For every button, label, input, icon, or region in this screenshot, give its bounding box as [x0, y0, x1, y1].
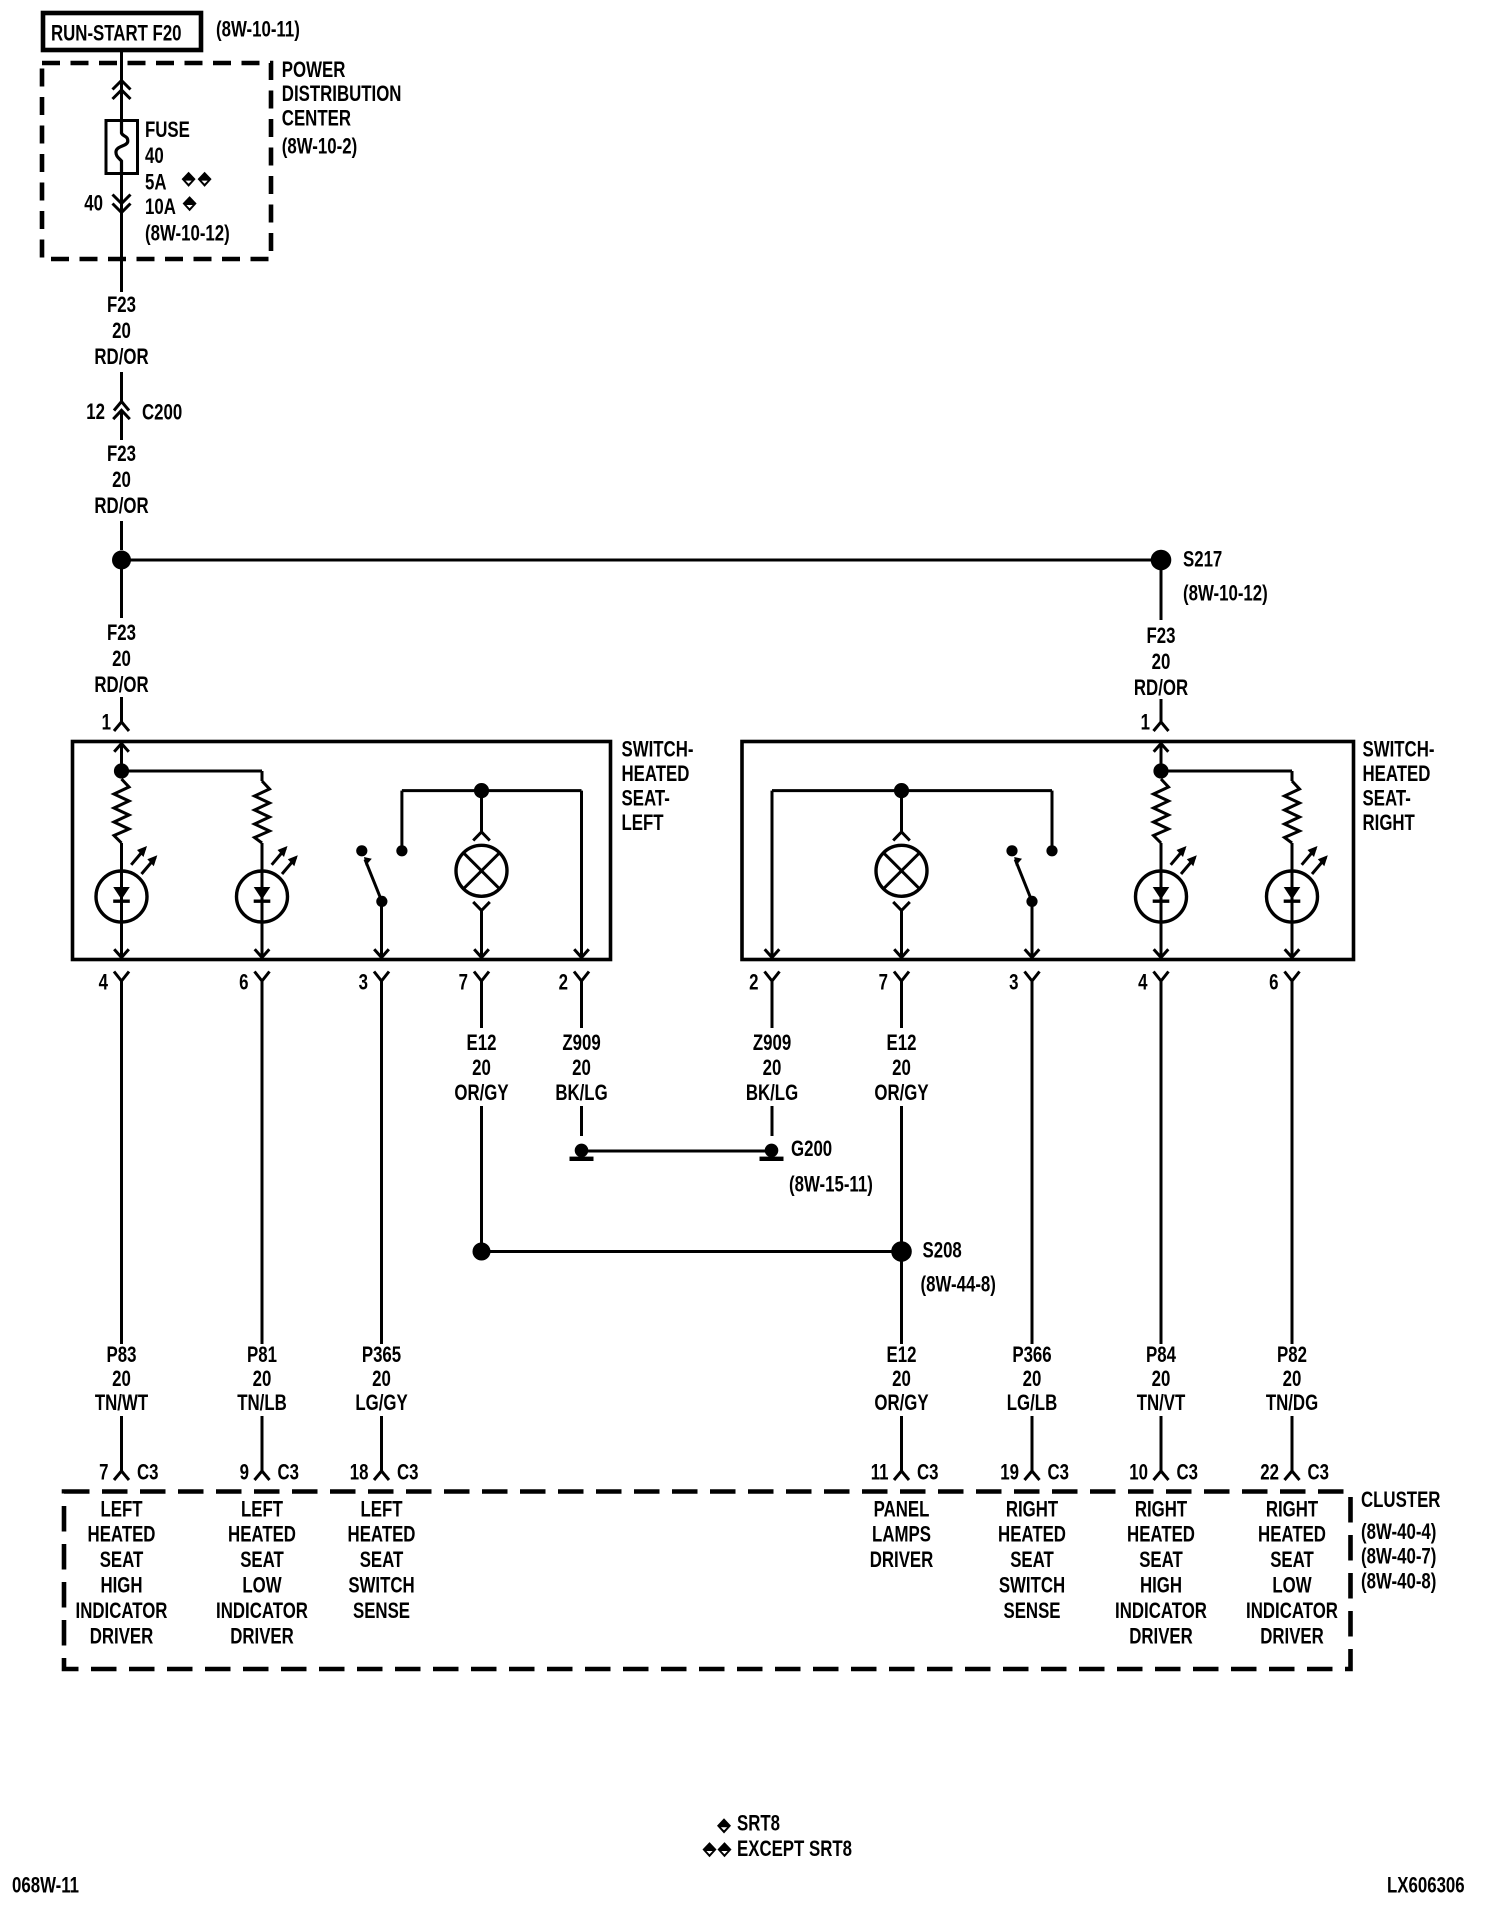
svg-text:EXCEPT SRT8: EXCEPT SRT8 — [737, 1837, 852, 1862]
svg-text:P81: P81 — [247, 1343, 277, 1368]
svg-text:DRIVER: DRIVER — [870, 1548, 934, 1573]
svg-text:LG/GY: LG/GY — [355, 1391, 407, 1416]
junction right lamp — [894, 783, 909, 798]
svg-text:20: 20 — [112, 1367, 131, 1392]
wire E12 left b — [480, 1106, 483, 1252]
wire right switch common — [1031, 901, 1034, 957]
connector C3 pin 18 — [374, 1471, 389, 1480]
wire E12 to S208 — [482, 1250, 902, 1253]
svg-text:BK/LG: BK/LG — [555, 1081, 607, 1106]
wire left box top rail — [122, 770, 263, 773]
wire right lamp b — [900, 911, 903, 958]
svg-text:E12: E12 — [467, 1031, 497, 1056]
svg-text:OR/GY: OR/GY — [874, 1081, 928, 1106]
svg-text:SRT8: SRT8 — [737, 1811, 780, 1836]
svg-text:LOW: LOW — [1272, 1573, 1312, 1598]
svg-text:OR/GY: OR/GY — [874, 1391, 928, 1416]
svg-text:(8W-10-11): (8W-10-11) — [216, 17, 300, 42]
svg-text:F23: F23 — [1146, 624, 1175, 649]
svg-text:DRIVER: DRIVER — [90, 1624, 154, 1649]
wire F23 c — [120, 569, 123, 618]
svg-text:SWITCH: SWITCH — [348, 1573, 414, 1598]
svg-text:HEATED: HEATED — [622, 762, 690, 787]
svg-text:SEAT-: SEAT- — [622, 786, 670, 811]
lamp right panel illumination — [876, 845, 927, 896]
arrowhead left pin4 — [114, 949, 129, 957]
svg-text:RD/OR: RD/OR — [94, 345, 148, 370]
svg-text:4: 4 — [1138, 970, 1147, 995]
connector left pin 6 — [255, 972, 270, 982]
wire F23 d — [120, 697, 123, 722]
svg-text:20: 20 — [572, 1056, 591, 1081]
switch right (heated seat switch) — [1006, 845, 1057, 907]
wire P84 to cluster — [1160, 1416, 1163, 1471]
wire P82 to cluster — [1291, 1416, 1294, 1471]
svg-text:TN/DG: TN/DG — [1266, 1391, 1318, 1416]
svg-text:7: 7 — [99, 1460, 108, 1485]
svg-text:(8W-44-8): (8W-44-8) — [921, 1272, 996, 1297]
svg-text:20: 20 — [892, 1367, 911, 1392]
svg-text:068W-11: 068W-11 — [12, 1873, 79, 1898]
svg-text:LOW: LOW — [242, 1573, 282, 1598]
wire P82 long — [1291, 981, 1294, 1344]
svg-text:FUSE: FUSE — [145, 118, 190, 143]
svg-text:SWITCH-: SWITCH- — [1363, 737, 1435, 762]
svg-text:11: 11 — [871, 1460, 889, 1485]
svg-text:20: 20 — [112, 647, 131, 672]
svg-text:12: 12 — [86, 400, 105, 425]
wire left pin2 riser — [580, 791, 583, 958]
connector right pin 2 — [765, 972, 780, 982]
svg-text:7: 7 — [879, 970, 888, 995]
svg-text:C3: C3 — [1308, 1460, 1330, 1485]
svg-text:SEAT: SEAT — [1139, 1548, 1183, 1573]
svg-text:SEAT: SEAT — [360, 1548, 404, 1573]
svg-text:E12: E12 — [887, 1343, 917, 1368]
wire right high b — [1160, 922, 1163, 958]
wire P366 long — [1031, 981, 1034, 1344]
arrowhead pin1 left entry — [114, 744, 129, 752]
arrowhead right pin4 — [1154, 949, 1169, 957]
resistor left high — [114, 779, 129, 843]
junction right box top — [1153, 763, 1168, 778]
svg-text:2: 2 — [559, 970, 568, 995]
wire right pin2 riser — [771, 791, 774, 958]
chevron lamp top right — [893, 832, 910, 841]
wire left low b — [261, 922, 264, 958]
svg-text:RD/OR: RD/OR — [1134, 676, 1188, 701]
svg-text:INDICATOR: INDICATOR — [1246, 1599, 1338, 1624]
splice S208 — [891, 1241, 912, 1262]
svg-text:20: 20 — [1152, 650, 1171, 675]
svg-text:CLUSTER: CLUSTER — [1361, 1488, 1440, 1513]
svg-text:INDICATOR: INDICATOR — [216, 1599, 308, 1624]
svg-text:HEATED: HEATED — [1127, 1523, 1195, 1548]
wire P366 to cluster — [1031, 1416, 1034, 1471]
svg-text:SENSE: SENSE — [353, 1599, 410, 1624]
svg-text:INDICATOR: INDICATOR — [76, 1599, 168, 1624]
wire right low a — [1291, 843, 1294, 871]
svg-text:40: 40 — [84, 191, 103, 216]
svg-text:20: 20 — [253, 1367, 272, 1392]
svg-text:(8W-40-8): (8W-40-8) — [1361, 1569, 1436, 1594]
wire right high a — [1160, 843, 1163, 871]
junction left lamp — [474, 783, 489, 798]
connector right pin 6 — [1285, 972, 1300, 982]
svg-text:7: 7 — [459, 970, 468, 995]
fuse F20 40A — [106, 121, 138, 174]
svg-text:20: 20 — [1152, 1367, 1171, 1392]
svg-text:P84: P84 — [1146, 1343, 1176, 1368]
svg-text:1: 1 — [102, 710, 111, 735]
svg-text:RUN-START F20: RUN-START F20 — [51, 21, 182, 46]
arrowhead left pin6 — [255, 949, 270, 957]
svg-text:C3: C3 — [917, 1460, 939, 1485]
arrowhead left pin2 — [574, 949, 589, 957]
svg-text:HIGH: HIGH — [100, 1573, 142, 1598]
resistor left low — [255, 781, 270, 843]
wire Z909 left b — [580, 1106, 583, 1136]
connector right pin 4 — [1154, 972, 1169, 982]
svg-text:20: 20 — [472, 1056, 491, 1081]
ground G200 left — [570, 1144, 594, 1161]
svg-text:G200: G200 — [791, 1137, 832, 1162]
connector C3 pin 9 — [255, 1471, 270, 1480]
wire left low stub — [261, 771, 264, 781]
svg-text:POWER: POWER — [282, 58, 346, 83]
wire right low b — [1291, 922, 1294, 958]
svg-text:LEFT: LEFT — [360, 1497, 402, 1522]
wire E12 right b — [900, 1106, 903, 1344]
connector pin 1 left — [114, 722, 129, 731]
connector C3 pin 19 — [1025, 1471, 1040, 1480]
svg-text:20: 20 — [112, 468, 131, 493]
splice S217 — [1151, 550, 1172, 571]
arrowhead left pin3 — [374, 949, 389, 957]
chevron lamp bottom left — [473, 902, 490, 911]
wire P81 long — [261, 981, 264, 1344]
diamond marker except-SRT8 b — [198, 172, 212, 187]
svg-text:LAMPS: LAMPS — [872, 1523, 931, 1548]
svg-text:TN/WT: TN/WT — [95, 1391, 148, 1416]
svg-text:20: 20 — [763, 1056, 782, 1081]
chevron connector fuse out b — [113, 204, 131, 213]
svg-text:RIGHT: RIGHT — [1006, 1497, 1058, 1522]
svg-text:C200: C200 — [142, 400, 182, 425]
resistor right high — [1154, 779, 1169, 843]
svg-text:F23: F23 — [107, 442, 136, 467]
LED right low indicator — [1267, 846, 1328, 922]
arrowhead right pin7 — [894, 949, 909, 957]
svg-text:6: 6 — [1269, 970, 1278, 995]
wire left high b — [120, 922, 123, 958]
svg-text:4: 4 — [99, 970, 108, 995]
svg-text:HEATED: HEATED — [348, 1523, 416, 1548]
svg-text:P82: P82 — [1277, 1343, 1307, 1368]
svg-text:SWITCH: SWITCH — [999, 1573, 1065, 1598]
wire P365 long — [380, 981, 383, 1344]
diamond legend except a — [703, 1842, 717, 1857]
wire F23 to S217 — [130, 559, 1162, 562]
svg-text:SENSE: SENSE — [1003, 1599, 1060, 1624]
connector C3 pin 10 — [1154, 1471, 1169, 1480]
resistor right low — [1285, 781, 1300, 843]
svg-text:RIGHT: RIGHT — [1135, 1497, 1187, 1522]
wire right box top rail — [1161, 770, 1292, 773]
chevron connector C-PDC b — [113, 90, 131, 99]
cluster dashed box — [64, 1492, 1351, 1670]
wire pin1 left internal — [120, 744, 123, 772]
svg-text:(8W-40-4): (8W-40-4) — [1361, 1520, 1436, 1545]
chevron connector fuse out a — [113, 195, 131, 204]
svg-text:1: 1 — [1141, 710, 1150, 735]
svg-text:Z909: Z909 — [562, 1031, 600, 1056]
svg-text:HEATED: HEATED — [228, 1523, 296, 1548]
svg-text:LEFT: LEFT — [241, 1497, 283, 1522]
wire Z909 right a — [771, 981, 774, 1028]
wire P81 to cluster — [261, 1416, 264, 1471]
svg-text:3: 3 — [359, 970, 368, 995]
switch left (heated seat switch) — [356, 845, 407, 907]
svg-text:C3: C3 — [278, 1460, 300, 1485]
Power Distribution Center dashed box — [42, 63, 271, 259]
wire F20 feed — [120, 50, 123, 121]
svg-text:P365: P365 — [362, 1343, 401, 1368]
wire left switch common — [380, 901, 383, 957]
svg-text:LX606306: LX606306 — [1387, 1873, 1465, 1898]
wire left lamp rail — [402, 789, 582, 792]
svg-text:(8W-10-12): (8W-10-12) — [1183, 581, 1268, 606]
svg-text:DRIVER: DRIVER — [230, 1624, 294, 1649]
svg-text:SEAT: SEAT — [1010, 1548, 1054, 1573]
connector C3 pin 11 — [894, 1471, 909, 1480]
chevron connector C-PDC a — [113, 81, 131, 90]
connector left pin 2 — [574, 972, 589, 982]
arrowhead right pin2 — [765, 949, 780, 957]
svg-text:9: 9 — [240, 1460, 249, 1485]
svg-text:CENTER: CENTER — [282, 106, 351, 131]
svg-text:RIGHT: RIGHT — [1363, 811, 1415, 836]
wire pin1 right internal — [1160, 744, 1163, 772]
splice junction at F23 — [112, 551, 131, 570]
wire E12 to cluster — [900, 1416, 903, 1471]
svg-text:F23: F23 — [107, 293, 136, 318]
connector left pin 7 — [474, 972, 489, 982]
svg-text:HEATED: HEATED — [1363, 762, 1431, 787]
svg-text:20: 20 — [892, 1056, 911, 1081]
svg-text:RD/OR: RD/OR — [94, 494, 148, 519]
svg-text:C3: C3 — [1177, 1460, 1199, 1485]
svg-text:(8W-10-12): (8W-10-12) — [145, 221, 230, 246]
svg-text:(8W-15-11): (8W-15-11) — [789, 1172, 873, 1197]
svg-text:SEAT: SEAT — [240, 1548, 284, 1573]
arrowhead right pin6 — [1285, 949, 1300, 957]
chevron lamp bottom right — [893, 902, 910, 911]
svg-text:BK/LG: BK/LG — [746, 1081, 798, 1106]
svg-text:DISTRIBUTION: DISTRIBUTION — [282, 82, 402, 107]
wire right lamp rail — [772, 789, 1052, 792]
lamp left panel illumination — [456, 845, 507, 896]
svg-text:10: 10 — [1129, 1460, 1148, 1485]
svg-text:S217: S217 — [1183, 547, 1222, 572]
svg-text:TN/VT: TN/VT — [1137, 1391, 1186, 1416]
connector C3 pin 7 — [114, 1471, 129, 1480]
svg-text:PANEL: PANEL — [874, 1497, 930, 1522]
svg-text:18: 18 — [350, 1460, 369, 1485]
diamond legend except b — [718, 1842, 732, 1857]
arrowhead left pin7 — [474, 949, 489, 957]
connector C200 male half — [113, 410, 130, 419]
svg-text:SWITCH-: SWITCH- — [622, 737, 694, 762]
svg-text:6: 6 — [239, 970, 248, 995]
node RUN-START F20 feed box — [43, 13, 201, 50]
wire right low stub — [1291, 771, 1294, 781]
svg-text:P83: P83 — [107, 1343, 137, 1368]
wire Z909 left a — [580, 981, 583, 1028]
wire right switch feed riser — [1051, 791, 1054, 851]
wire fuse output — [120, 174, 123, 293]
wire P84 long — [1160, 981, 1163, 1344]
svg-text:19: 19 — [1000, 1460, 1019, 1485]
wire left switch feed riser — [400, 791, 403, 851]
wire E12 right a — [900, 981, 903, 1028]
wire P83 long — [120, 981, 123, 1344]
switch-heated seat-right box — [742, 742, 1354, 960]
LED left high indicator — [96, 846, 157, 922]
connector pin 1 right — [1154, 722, 1169, 731]
diamond legend SRT8 — [717, 1818, 731, 1833]
wire right lamp a — [900, 791, 903, 832]
wire P83 to cluster — [120, 1416, 123, 1471]
svg-text:20: 20 — [1023, 1367, 1042, 1392]
wire left lamp b — [480, 911, 483, 958]
svg-text:SEAT-: SEAT- — [1363, 786, 1411, 811]
svg-text:HEATED: HEATED — [1258, 1523, 1326, 1548]
diamond marker except-SRT8 a — [182, 172, 196, 187]
svg-text:(8W-40-7): (8W-40-7) — [1361, 1545, 1436, 1570]
svg-text:E12: E12 — [887, 1031, 917, 1056]
svg-text:LEFT: LEFT — [622, 811, 664, 836]
svg-text:DRIVER: DRIVER — [1129, 1624, 1193, 1649]
ground G200 right — [760, 1144, 784, 1161]
wire P365 to cluster — [380, 1416, 383, 1471]
svg-text:22: 22 — [1260, 1460, 1279, 1485]
svg-text:C3: C3 — [1048, 1460, 1070, 1485]
wire F23 b2 — [120, 521, 123, 550]
svg-text:HIGH: HIGH — [1140, 1573, 1182, 1598]
wire E12 left a — [480, 981, 483, 1028]
svg-text:RD/OR: RD/OR — [94, 673, 148, 698]
junction E12 left — [473, 1243, 491, 1261]
wire F23 f — [1160, 699, 1163, 722]
arrowhead right pin3 — [1025, 949, 1040, 957]
svg-text:3: 3 — [1009, 970, 1018, 995]
svg-text:OR/GY: OR/GY — [454, 1081, 508, 1106]
svg-text:40: 40 — [145, 144, 164, 169]
svg-text:LEFT: LEFT — [100, 1497, 142, 1522]
arrowhead pin1 right entry — [1154, 744, 1169, 752]
svg-text:C3: C3 — [397, 1460, 419, 1485]
svg-text:DRIVER: DRIVER — [1260, 1624, 1324, 1649]
connector left pin 4 — [114, 972, 129, 982]
svg-text:HEATED: HEATED — [88, 1523, 156, 1548]
svg-text:TN/LB: TN/LB — [237, 1391, 287, 1416]
diamond marker SRT8 — [183, 196, 197, 211]
svg-text:SEAT: SEAT — [1270, 1548, 1314, 1573]
wire F23 b — [120, 410, 123, 440]
connector C200 female half — [114, 402, 129, 411]
wire left high a — [120, 843, 123, 871]
svg-text:20: 20 — [1283, 1367, 1302, 1392]
LED right high indicator — [1136, 846, 1197, 922]
svg-text:LG/LB: LG/LB — [1007, 1391, 1057, 1416]
wire Z909 right b — [771, 1106, 774, 1136]
svg-text:2: 2 — [749, 970, 758, 995]
wire F23 e — [1160, 570, 1163, 620]
wire left lamp a — [480, 791, 483, 832]
LED left low indicator — [237, 846, 298, 922]
wire F23 a — [120, 372, 123, 402]
svg-text:(8W-10-2): (8W-10-2) — [282, 134, 357, 159]
wire between grounds — [582, 1150, 772, 1153]
wire left low a — [261, 843, 264, 871]
svg-text:Z909: Z909 — [753, 1031, 791, 1056]
connector C3 pin 22 — [1285, 1471, 1300, 1480]
junction left box top — [114, 763, 129, 778]
chevron lamp top left — [473, 832, 490, 841]
svg-text:RIGHT: RIGHT — [1266, 1497, 1318, 1522]
connector right pin 7 — [894, 972, 909, 982]
switch-heated seat-left box — [73, 742, 611, 960]
svg-text:20: 20 — [372, 1367, 391, 1392]
svg-text:SEAT: SEAT — [100, 1548, 144, 1573]
svg-text:INDICATOR: INDICATOR — [1115, 1599, 1207, 1624]
svg-text:P366: P366 — [1012, 1343, 1051, 1368]
svg-text:HEATED: HEATED — [998, 1523, 1066, 1548]
connector right pin 3 — [1025, 972, 1040, 982]
connector left pin 3 — [374, 972, 389, 982]
svg-text:20: 20 — [112, 319, 131, 344]
svg-text:S208: S208 — [923, 1238, 962, 1263]
svg-text:5A: 5A — [145, 170, 167, 195]
svg-text:F23: F23 — [107, 621, 136, 646]
svg-text:10A: 10A — [145, 195, 176, 220]
svg-text:C3: C3 — [137, 1460, 159, 1485]
